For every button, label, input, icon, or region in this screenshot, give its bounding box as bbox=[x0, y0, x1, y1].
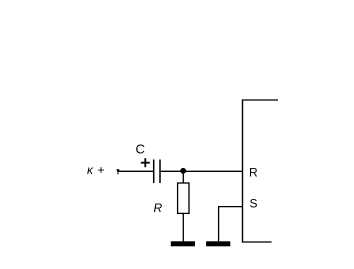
wire from input arrow to capacitor C bbox=[118, 170, 154, 172]
svg-text:R: R bbox=[154, 201, 163, 215]
wire corner to S pin bbox=[218, 206, 243, 208]
capacitor C right plate bbox=[159, 160, 161, 184]
junction node dot bbox=[180, 168, 186, 174]
wire ground to S corner bbox=[218, 206, 220, 242]
svg-text:κ: κ bbox=[87, 163, 94, 177]
wire junction to resistor R bbox=[182, 171, 184, 183]
resistor R body bbox=[178, 183, 189, 213]
svg-text:R: R bbox=[249, 165, 258, 179]
capacitor C left plate bbox=[153, 160, 155, 184]
latch bottom output stub bbox=[243, 241, 272, 243]
latch top output stub bbox=[243, 99, 279, 101]
svg-text:S: S bbox=[250, 197, 258, 211]
svg-text:C: C bbox=[136, 141, 145, 156]
svg-text:+: + bbox=[98, 163, 105, 177]
ground bar under S wire bbox=[206, 241, 230, 246]
latch body vertical line bbox=[242, 99, 244, 242]
wire resistor R to ground bbox=[182, 213, 184, 241]
wire input terminal arrow bbox=[117, 169, 120, 174]
capacitor C polarity + bbox=[141, 158, 150, 167]
wire from capacitor to R pin of latch bbox=[161, 170, 243, 172]
ground bar under resistor bbox=[171, 241, 195, 246]
